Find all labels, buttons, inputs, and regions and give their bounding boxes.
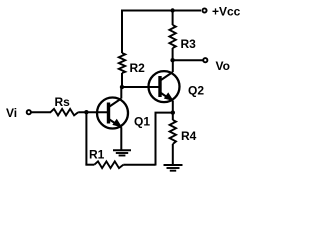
wire top supply rail (122, 10, 201, 12)
svg-text:Rs: Rs (55, 95, 71, 109)
wire Q1 collector lead (120, 87, 122, 99)
node Q1 collector junction dot (120, 85, 124, 89)
wire R3 top lead (172, 11, 174, 26)
wire Q1 emitter lead (120, 128, 122, 150)
wire R3 bottom lead (172, 48, 174, 60)
wire R4 bottom lead (172, 144, 174, 165)
transistor Q1 (97, 98, 128, 129)
resistor Rs (51, 109, 79, 116)
wire Q2 emitter lead (172, 101, 174, 120)
wire R2 bottom lead (121, 73, 123, 87)
svg-text:R1: R1 (89, 148, 105, 162)
node Vo junction dot (170, 58, 174, 62)
wire Q1 collector to Q2 base (122, 86, 159, 88)
svg-text:R4: R4 (181, 129, 197, 143)
svg-text:R3: R3 (181, 37, 197, 51)
ground R4 (164, 165, 183, 171)
terminal Vo (203, 58, 207, 62)
wire R2 top lead (121, 10, 123, 54)
resistor R2 (119, 53, 125, 73)
wire R1 left lead (85, 164, 94, 166)
node input junction dot (84, 110, 88, 114)
wire Vi to Rs (32, 111, 52, 113)
node supply junction dot (170, 8, 174, 12)
terminal Vi (27, 110, 31, 114)
resistor R4 (170, 120, 176, 144)
wire R1 right lead (123, 164, 155, 166)
svg-text:Vi: Vi (6, 106, 17, 120)
wire Q2 collector lead (172, 60, 174, 72)
wire feedback to Q2 emitter node (155, 112, 174, 114)
svg-text:Q1: Q1 (134, 115, 150, 129)
transistor Q2 (149, 71, 180, 102)
resistor R3 (169, 25, 175, 48)
wire Rs to Q1 base (78, 111, 108, 113)
resistor R1 (94, 161, 123, 168)
svg-text:+Vcc: +Vcc (212, 5, 241, 19)
svg-text:Q2: Q2 (188, 84, 204, 98)
ground Q1 emitter (113, 150, 131, 155)
wire feedback up (155, 113, 157, 166)
terminal +Vcc (202, 8, 206, 12)
svg-text:R2: R2 (130, 61, 146, 75)
node Q2 emitter junction dot (171, 110, 175, 114)
svg-text:Vo: Vo (216, 59, 230, 73)
wire Vo output (173, 59, 203, 61)
wire input node down to R1 (85, 112, 87, 165)
